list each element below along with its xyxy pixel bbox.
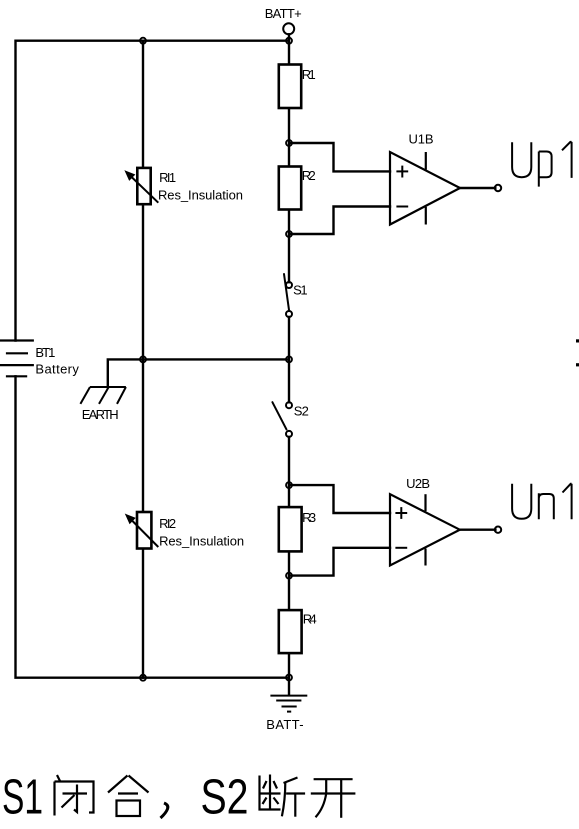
svg-text:RI1: RI1 bbox=[159, 170, 176, 185]
svg-text:R2: R2 bbox=[302, 168, 316, 183]
svg-text:S2: S2 bbox=[201, 771, 249, 825]
svg-text:RI2: RI2 bbox=[159, 516, 176, 531]
svg-text:Res_Insulation: Res_Insulation bbox=[158, 187, 243, 202]
svg-text:EARTH: EARTH bbox=[82, 407, 119, 422]
svg-text:BATT+: BATT+ bbox=[265, 6, 302, 21]
svg-text:R4: R4 bbox=[303, 612, 317, 627]
svg-text:BT1: BT1 bbox=[35, 345, 55, 360]
svg-text:U2B: U2B bbox=[406, 476, 430, 491]
svg-text:R3: R3 bbox=[302, 510, 316, 525]
svg-text:U1B: U1B bbox=[409, 131, 434, 146]
svg-text:R1: R1 bbox=[302, 67, 316, 82]
svg-text:S1: S1 bbox=[293, 283, 308, 298]
svg-text:BATT-: BATT- bbox=[266, 717, 303, 732]
svg-text:Battery: Battery bbox=[35, 362, 79, 377]
svg-text:Res_Insulation: Res_Insulation bbox=[159, 534, 244, 549]
svg-text:S1: S1 bbox=[2, 771, 43, 825]
svg-text:S2: S2 bbox=[294, 404, 309, 419]
